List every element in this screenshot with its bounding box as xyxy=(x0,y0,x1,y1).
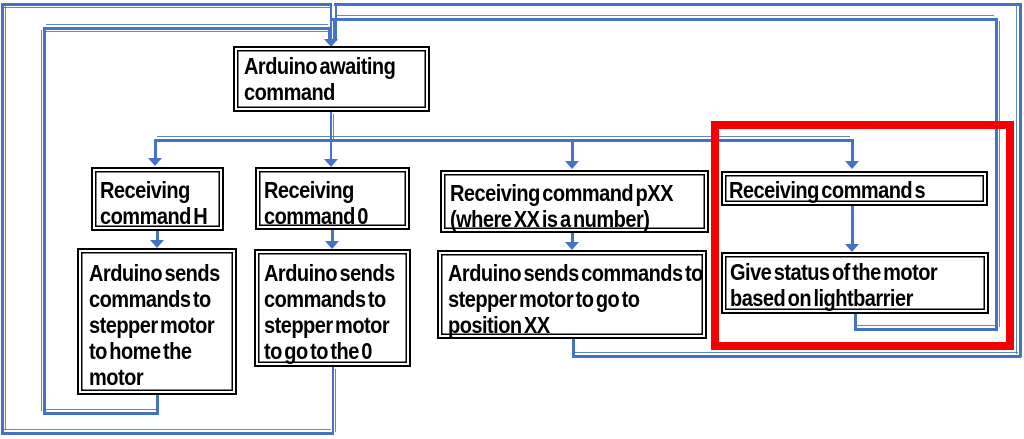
arrowhead into zero action box xyxy=(325,241,339,249)
wire: Receiving H to action arrow (x157) xyxy=(156,231,159,242)
box: position action xyxy=(437,250,707,339)
wire: bundle vertical into top box (loop pXX x335) xyxy=(335,3,337,41)
wire: loop pXX bottom horizontal (y356, x573-1020) xyxy=(572,355,1021,358)
box: Receiving command pXX xyxy=(440,170,709,233)
arrowhead into Receiving command pXX xyxy=(565,161,579,169)
wire: loop 0 left vertical (x2, y4-433) xyxy=(1,3,4,433)
wire: branch drop to Receiving 0 (x331) xyxy=(330,139,333,160)
wire: loop H left vertical halo xyxy=(41,30,42,411)
wire: loop H bottom horizontal (y413, x44-157) xyxy=(43,412,159,415)
wire: loop pXX riser from position box (x573, y339-356) xyxy=(572,338,575,358)
arrowhead into Receiving command H xyxy=(148,158,162,166)
wire: loop 0 bottom horizontal halo xyxy=(4,429,331,430)
arrowhead into Receiving command s xyxy=(845,161,859,169)
wire: loop H top horizontal halo above xyxy=(46,24,328,25)
wire: branch drop to Receiving H (x155) xyxy=(154,139,157,159)
wire: loop s right vertical (x996, y19-329) xyxy=(995,18,998,330)
box: Arduino awaiting command xyxy=(233,46,430,112)
wire: loop pXX right vertical (x1020, y3-356) xyxy=(1019,3,1022,357)
wire: loop 0 riser from zero box (x333, y367-433) xyxy=(332,366,335,435)
box: home action xyxy=(77,248,237,395)
wire: loop 0 bottom horizontal (y433, x2-333) xyxy=(1,432,334,435)
wire: Receiving s to action arrow (x852) xyxy=(851,206,854,244)
wire: top box to branch vertical (x331, y112-141) xyxy=(330,112,333,141)
wire: loop H riser from home box (x157, y395-413) xyxy=(156,394,159,414)
wire: Receiving 0 to action arrow (x332) xyxy=(331,230,334,242)
wire: loop pXX top horizontal (y3, x335-1020) xyxy=(334,3,1021,6)
box: Receiving command H xyxy=(91,167,224,231)
wire: bundle vertical into top box (loop H x329) xyxy=(328,27,330,41)
wire: loop 0 top horizontal (y4, x2-331) xyxy=(1,3,332,6)
wire: loop H left vertical (x44, y28-413) xyxy=(43,27,46,414)
wire: loop 0 top horizontal halo xyxy=(4,7,330,8)
wire: loop s top horizontal (y19, x333-996) xyxy=(332,18,997,21)
wire: loop s right vertical halo xyxy=(999,21,1000,327)
wire: loop s top horizontal halo xyxy=(335,15,994,16)
wire: branch drop to Receiving pXX (x572) xyxy=(571,139,574,162)
wire: loop s bottom horizontal halo xyxy=(857,325,995,326)
arrowhead into status action box xyxy=(845,244,859,252)
wire: loop s riser from status box (x855, y314-329) xyxy=(854,313,857,331)
wire: loop 0 left vertical halo xyxy=(5,6,6,430)
wire: loop pXX bottom horizontal halo xyxy=(575,352,1018,353)
arrowhead into position action box xyxy=(565,242,579,250)
wire: Receiving pXX to action arrow (x572) xyxy=(571,233,574,243)
arrowhead into Arduino awaiting command box xyxy=(324,39,338,47)
wire: loop pXX right vertical halo xyxy=(1016,5,1017,354)
wire: loop H top horizontal (y28, x44-330) xyxy=(43,27,331,30)
box: status action xyxy=(721,252,989,314)
wire: loop 0 riser halo xyxy=(335,369,336,432)
red highlight rectangle xyxy=(711,121,1014,350)
box: Receiving command s xyxy=(721,171,988,206)
box: zero action xyxy=(254,249,411,367)
arrowhead into Receiving command 0 xyxy=(324,159,338,167)
wire: loop H top horizontal halo below xyxy=(46,31,328,32)
wire: branch horizontal (y140, x155-852) xyxy=(154,139,853,142)
arrowhead into home action box xyxy=(150,240,164,248)
wire: loop s bottom horizontal (y329, x855-996) xyxy=(854,328,998,331)
wire: top box to branch vertical halo xyxy=(333,114,334,140)
wire: loop H bottom horizontal halo xyxy=(46,409,156,410)
box: Receiving command 0 xyxy=(255,167,410,230)
wire: bundle vertical into top box (loop s x333) xyxy=(333,18,335,41)
wire: bundle vertical into top box (loop 0 x331) xyxy=(330,3,332,41)
wire: branch drop to Receiving s (x852) xyxy=(851,139,854,162)
wire: branch horizontal halo xyxy=(157,136,850,137)
